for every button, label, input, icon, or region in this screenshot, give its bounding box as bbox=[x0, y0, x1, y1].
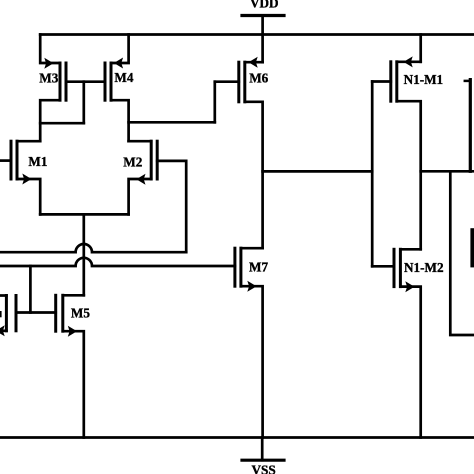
svg-text:M7: M7 bbox=[249, 260, 268, 275]
svg-text:M4: M4 bbox=[114, 70, 133, 85]
svg-text:M5: M5 bbox=[71, 306, 90, 321]
svg-text:N1-M2: N1-M2 bbox=[404, 260, 444, 275]
svg-text:M6: M6 bbox=[249, 71, 268, 86]
svg-text:N1-M1: N1-M1 bbox=[404, 72, 444, 87]
svg-text:VDD: VDD bbox=[250, 0, 279, 11]
svg-text:M3: M3 bbox=[39, 71, 58, 86]
svg-text:VSS: VSS bbox=[252, 462, 276, 474]
svg-text:M1: M1 bbox=[28, 154, 47, 169]
svg-text:M2: M2 bbox=[123, 154, 142, 169]
